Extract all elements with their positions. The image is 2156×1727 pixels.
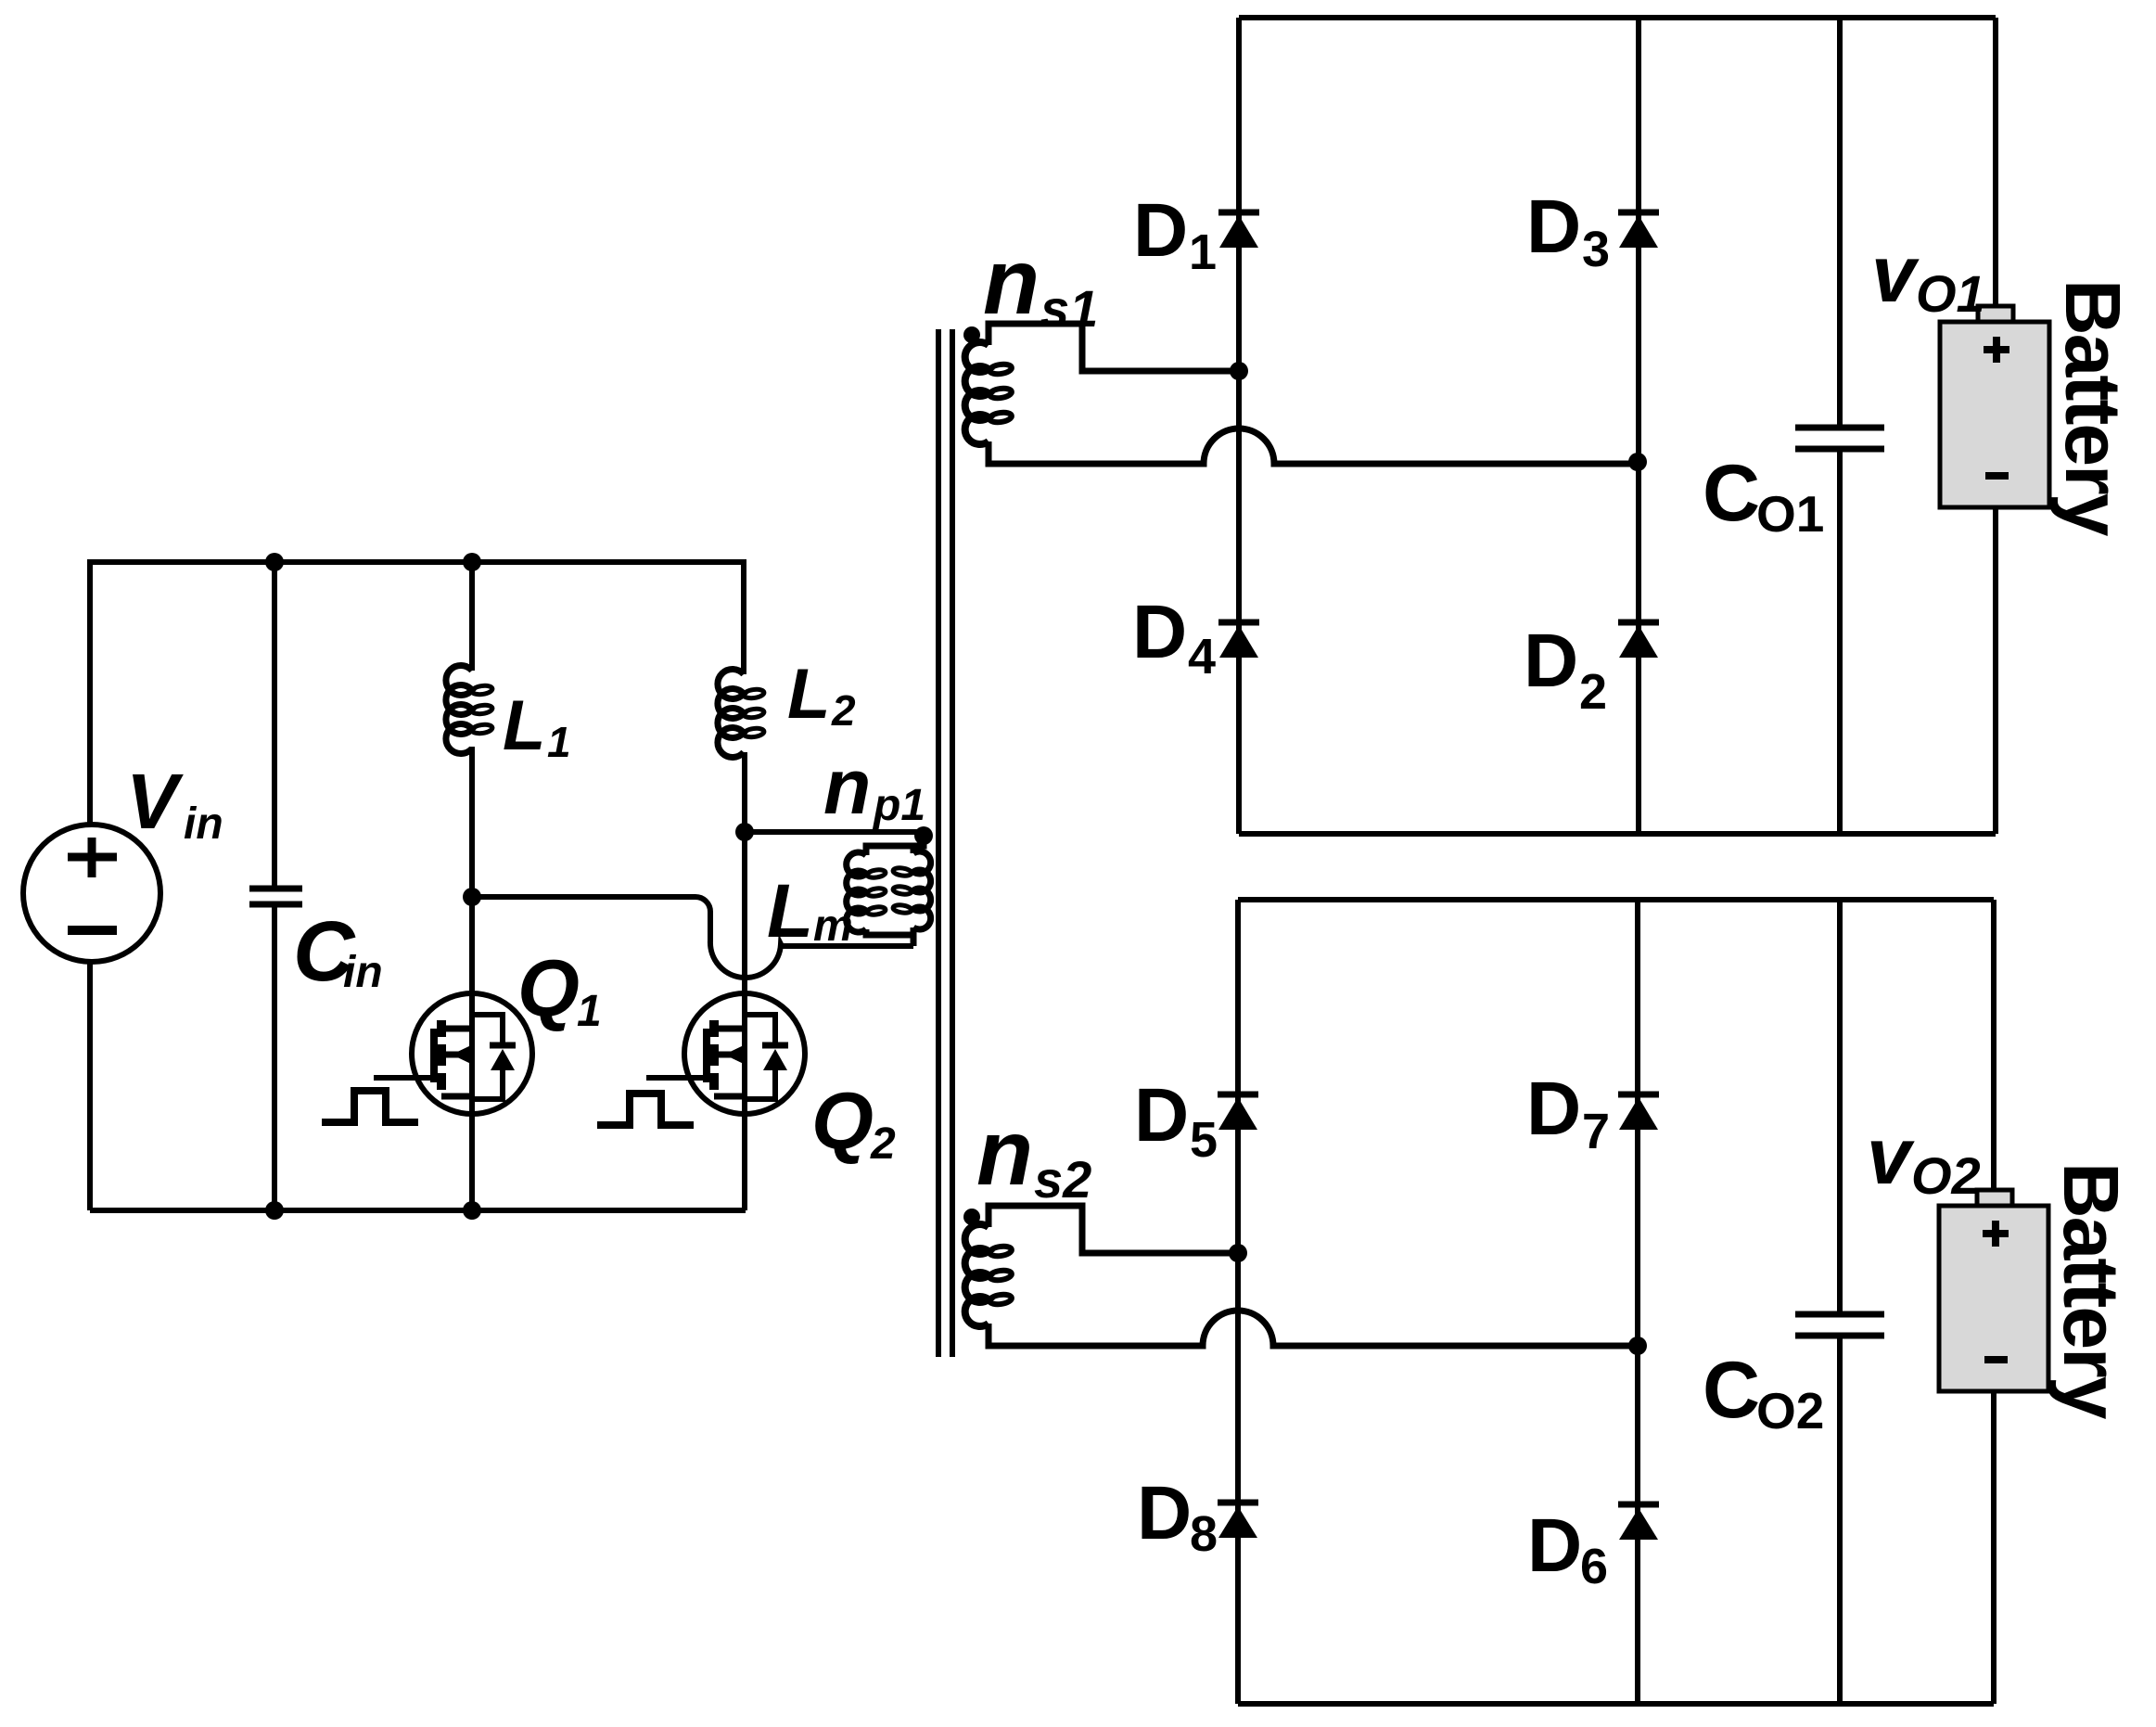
wire battery2 column — [1991, 900, 1997, 1704]
diode D8 — [1218, 1503, 1258, 1538]
svg-text:2: 2 — [831, 686, 856, 735]
transistor Q1 — [374, 993, 532, 1114]
svg-text:8: 8 — [1190, 1506, 1218, 1562]
svg-text:Battery: Battery — [2049, 279, 2137, 537]
svg-text:2: 2 — [870, 1119, 896, 1169]
polarity dot ns2 — [963, 1209, 980, 1225]
diode D6 — [1618, 1504, 1659, 1540]
capacitor CO1 — [1795, 428, 1884, 449]
svg-text:C: C — [1703, 1346, 1760, 1435]
transistor Q2 — [646, 993, 805, 1114]
svg-text:Q: Q — [517, 944, 580, 1033]
svg-text:m: m — [813, 902, 853, 951]
svg-text:5: 5 — [1190, 1112, 1218, 1168]
svg-text:6: 6 — [1580, 1539, 1608, 1594]
svg-text:O2: O2 — [1756, 1382, 1824, 1439]
node D7 anode — [1628, 1337, 1647, 1355]
svg-text:1: 1 — [1189, 224, 1217, 280]
diode D3 — [1618, 212, 1659, 248]
winding ns1 — [965, 324, 1638, 464]
svg-text:p1: p1 — [872, 781, 925, 830]
polarity dot ns1 — [963, 326, 980, 343]
svg-text:n: n — [976, 1101, 1033, 1205]
wire Q2 column — [742, 752, 747, 1210]
svg-text:1: 1 — [547, 718, 571, 766]
wire lower box bottom rail — [1238, 1701, 1994, 1707]
node A L1 Q1 — [463, 888, 481, 906]
capacitor Cin — [249, 562, 302, 1210]
diode D5 — [1218, 1094, 1258, 1130]
svg-text:O1: O1 — [1756, 485, 1824, 543]
winding np1 with Lm parallel loop — [847, 836, 931, 946]
wire np1 feed — [745, 829, 924, 835]
node top rail L1 — [463, 553, 481, 571]
wire left rail lower — [87, 962, 93, 1210]
inductor L2 — [718, 562, 765, 758]
svg-text:7: 7 — [1582, 1104, 1610, 1159]
capacitor CO2 — [1795, 1314, 1884, 1336]
node D5 anode — [1229, 1244, 1247, 1262]
transformer core — [938, 329, 952, 1357]
node bottom rail Cin — [265, 1201, 284, 1220]
svg-text:Q: Q — [811, 1077, 874, 1166]
gate pulse Q2 — [597, 1094, 694, 1125]
svg-text:n: n — [823, 743, 871, 830]
wire D3 D2 column — [1636, 18, 1641, 834]
svg-text:D: D — [1526, 185, 1581, 269]
diode D4 — [1218, 622, 1259, 658]
wire bottom rail left — [90, 1208, 746, 1213]
node B L2 Q2 — [735, 823, 754, 841]
svg-text:s2: s2 — [1034, 1150, 1091, 1209]
voltage source Vin — [23, 825, 160, 962]
svg-text:D: D — [1137, 1471, 1192, 1555]
diode D2 — [1618, 622, 1659, 658]
svg-text:O1: O1 — [1916, 264, 1985, 323]
battery 2 — [1939, 1190, 2048, 1391]
wire D7 D6 column — [1635, 900, 1640, 1704]
gate pulse Q1 — [322, 1091, 418, 1122]
wire CO2 column — [1837, 900, 1843, 1704]
diode D1 — [1218, 212, 1259, 248]
svg-text:L: L — [787, 655, 830, 734]
svg-text:in: in — [184, 800, 223, 849]
svg-text:O2: O2 — [1911, 1146, 1981, 1205]
svg-text:n: n — [983, 230, 1040, 334]
wire top rail left — [90, 562, 744, 825]
svg-text:s1: s1 — [1040, 279, 1098, 338]
diode D7 — [1618, 1094, 1659, 1130]
svg-text:D: D — [1133, 188, 1188, 273]
wire top box outline — [1239, 15, 1996, 20]
svg-text:D: D — [1134, 1073, 1189, 1158]
svg-text:L: L — [503, 686, 545, 765]
svg-text:D: D — [1132, 590, 1187, 674]
wire lower box outline — [1238, 897, 1994, 902]
node bottom rail Q1 — [463, 1201, 481, 1220]
svg-text:2: 2 — [1579, 664, 1607, 720]
svg-text:3: 3 — [1582, 222, 1610, 277]
svg-text:C: C — [1703, 449, 1760, 538]
svg-text:D: D — [1524, 619, 1578, 703]
wire top box bottom rail — [1239, 831, 1996, 837]
node D1 anode — [1230, 362, 1248, 380]
wire Q1 column — [469, 747, 475, 1210]
wire D5 D8 column — [1235, 900, 1241, 1704]
wire D1 D4 column — [1236, 18, 1242, 834]
battery 1 — [1940, 306, 2049, 507]
svg-text:4: 4 — [1188, 629, 1216, 684]
svg-text:Battery: Battery — [2048, 1162, 2135, 1420]
svg-text:v: v — [1871, 230, 1920, 319]
wire battery1 column — [1993, 18, 1998, 834]
wire CO1 column — [1837, 18, 1843, 834]
svg-text:D: D — [1526, 1067, 1581, 1151]
svg-text:D: D — [1527, 1503, 1582, 1588]
svg-text:1: 1 — [577, 987, 602, 1036]
winding ns2 — [965, 1206, 1638, 1346]
inductor L1 — [446, 562, 493, 754]
wire node A to Lm with hop over Q2 column — [472, 897, 913, 978]
node D3 anode — [1628, 453, 1647, 471]
svg-text:V: V — [126, 758, 184, 845]
svg-text:v: v — [1867, 1112, 1915, 1201]
polarity dot np1 — [914, 826, 933, 845]
svg-text:in: in — [343, 948, 383, 997]
svg-text:L: L — [767, 869, 813, 953]
node top rail Cin — [265, 553, 284, 571]
